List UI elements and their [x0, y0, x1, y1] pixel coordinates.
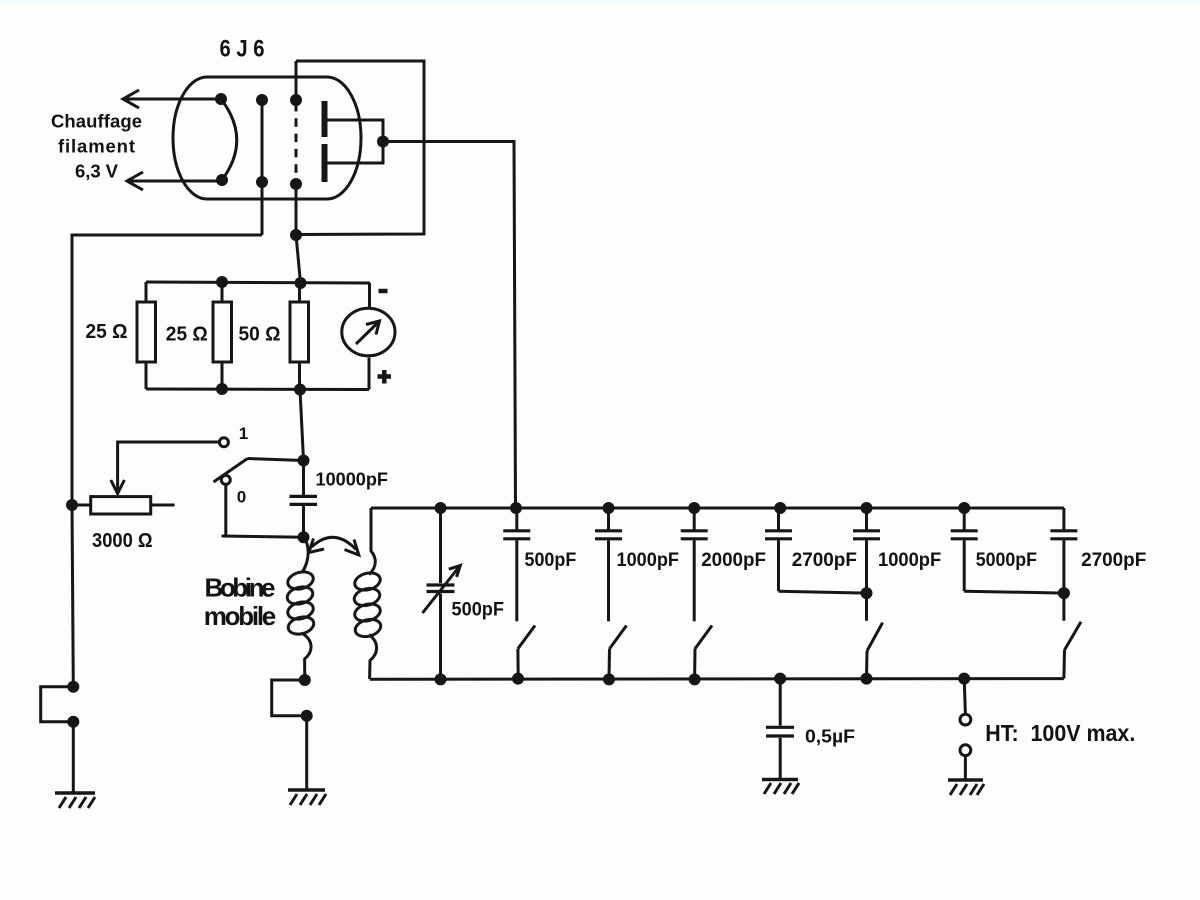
- label meter plus: [378, 370, 392, 384]
- svg-text:Bobine: Bobine: [205, 573, 276, 603]
- wire main vertical to switch junction: [300, 390, 304, 461]
- meter M1 needle arrow: [356, 321, 380, 344]
- svg-text:500pF: 500pF: [452, 600, 505, 621]
- ground bypass: [762, 780, 799, 795]
- svg-text:2000pF: 2000pF: [701, 550, 766, 571]
- wire tank top rail: [371, 507, 1064, 510]
- node bottom rail dot A: [216, 383, 228, 395]
- wire cathode to left rail: [72, 235, 262, 505]
- svg-text:2700pF: 2700pF: [792, 550, 857, 571]
- node var cap top dot: [435, 502, 447, 514]
- label Chauffage filament 6,3 V: [51, 111, 142, 182]
- capacitor C7 1000pF: [853, 508, 880, 621]
- wire anode to tank: [383, 142, 516, 509]
- switch S5 blade: [867, 623, 883, 679]
- switch S4 blade: [695, 626, 712, 680]
- meter M1 circle: [342, 283, 395, 390]
- svg-text:10000pF: 10000pF: [316, 469, 389, 490]
- tube U1 anode plate bottom bar: [322, 144, 328, 182]
- wire switch junction to cap C1: [302, 461, 305, 496]
- potentiometer R4 3000 ohm body: [72, 497, 175, 514]
- tube U1 filament pin top dot: [215, 93, 227, 105]
- node link dot C8-C9: [1058, 587, 1070, 599]
- node jumper bottom dot left: [67, 716, 79, 728]
- capacitor C3 500pF: [503, 508, 530, 621]
- wire grid up to feedback rectangle: [295, 61, 298, 100]
- wire heater bottom with arrow: [127, 172, 222, 190]
- terminal HT lower circle: [960, 745, 971, 756]
- wire anode taps: [326, 120, 383, 163]
- node tank top dot C4: [603, 502, 615, 514]
- tube U1 envelope: [173, 77, 361, 199]
- node tank top dot C6: [774, 502, 786, 514]
- wire HT terminal lower to ground: [964, 755, 967, 780]
- capacitor C5 2000pF: [681, 508, 708, 621]
- switch S2 blade: [518, 626, 535, 679]
- svg-text:HT: 100V max.: HT: 100V max.: [985, 720, 1135, 746]
- ground left: [55, 793, 95, 808]
- capacitor C2 variable 500pF: [423, 508, 461, 679]
- coupling arrow between coils: [309, 537, 359, 555]
- capacitor C6 2700pF: [765, 508, 867, 593]
- node S2 bottom dot: [512, 673, 524, 685]
- capacitor C1 10000pF: [290, 496, 318, 504]
- wire contact 1 to potentiometer arrow: [111, 442, 220, 494]
- node tank top dot C7: [861, 502, 873, 514]
- tube U1 grid pin dashed line: [295, 103, 298, 182]
- node tank top dot C3: [510, 502, 522, 514]
- switch S3 blade: [609, 626, 627, 680]
- svg-text:filament: filament: [58, 136, 135, 157]
- svg-text:0,5µF: 0,5µF: [805, 726, 855, 747]
- wire jumper link middle: [272, 680, 307, 716]
- node jumper bottom dot middle: [301, 710, 313, 722]
- inductor L1 bobine mobile: [285, 537, 315, 680]
- inductor L2 tank coil: [352, 508, 382, 679]
- node jumper top dot left: [67, 681, 79, 693]
- node anode junction dot: [377, 136, 389, 148]
- node tank top dot C8: [958, 502, 970, 514]
- node S5 bottom dot: [861, 673, 873, 685]
- wire jumper link left: [41, 687, 74, 722]
- node bottom rail dot bypass: [774, 673, 786, 685]
- wire grid pin down to junction: [295, 184, 298, 235]
- node coil top dot: [298, 531, 310, 543]
- node tank top dot C5: [688, 502, 700, 514]
- tube U1 filament pin bottom dot: [216, 174, 228, 186]
- svg-text:1000pF: 1000pF: [878, 550, 941, 571]
- svg-text:6 J 6: 6 J 6: [220, 36, 265, 63]
- ground HT: [948, 780, 984, 795]
- node bottom rail dot B: [294, 384, 306, 396]
- wire to ground middle: [305, 716, 308, 790]
- resistor R2 25 ohm: [213, 282, 232, 389]
- node var cap bottom dot: [435, 673, 447, 685]
- tube U1 grid pin top dot: [290, 94, 302, 106]
- node 3000 ohm tap dot: [66, 499, 78, 511]
- svg-text:500pF: 500pF: [525, 550, 577, 571]
- tube U1 filament arc: [221, 99, 237, 180]
- resistor R1 25 ohm: [137, 282, 156, 389]
- ground middle: [288, 790, 326, 805]
- switch S1 contact 1 circle: [219, 438, 228, 447]
- svg-text:1: 1: [239, 424, 248, 443]
- resistor R3 50 ohm: [290, 283, 309, 390]
- svg-text:50 Ω: 50 Ω: [239, 324, 281, 346]
- wire feedback rectangle: [296, 61, 424, 235]
- node grid junction dot: [290, 229, 302, 241]
- svg-text:2700pF: 2700pF: [1081, 550, 1146, 571]
- switch S1 contact 0 circle: [221, 475, 230, 484]
- wire tank bottom rail: [370, 677, 1064, 681]
- wire heater top with arrow: [123, 90, 221, 108]
- node S4 bottom dot: [689, 673, 701, 685]
- wire to ground left: [72, 722, 75, 793]
- tube U1 cathode pin line: [261, 100, 264, 235]
- label meter minus: [379, 289, 388, 294]
- node switch junction dot: [298, 455, 310, 467]
- capacitor C4 1000pF: [595, 508, 622, 621]
- node top rail dot A: [216, 276, 228, 288]
- node S3 bottom dot: [603, 673, 615, 685]
- wire switch blade horizontal: [248, 459, 304, 461]
- wire contact 0 down and right: [222, 483, 304, 537]
- wire cap C1 to coil node: [302, 506, 305, 537]
- wire HT terminal upper: [964, 679, 965, 715]
- node coil bottom dot: [299, 674, 311, 686]
- capacitor C8 5000pF: [951, 508, 1064, 593]
- tube U1 grid pin bottom dot: [290, 178, 302, 190]
- node link dot C6-C7: [861, 587, 873, 599]
- node top rail dot B: [295, 277, 307, 289]
- wire grid junction to resistor rail: [296, 235, 301, 283]
- svg-text:mobile: mobile: [204, 601, 277, 631]
- svg-text:5000pF: 5000pF: [976, 550, 1037, 571]
- svg-text:0: 0: [237, 488, 246, 507]
- svg-text:25 Ω: 25 Ω: [166, 324, 208, 346]
- wire left rail down: [72, 505, 73, 687]
- switch S1 blade: [214, 459, 248, 483]
- label L1 Bobine mobile: [204, 573, 277, 632]
- tube U1 anode plate top bar: [322, 101, 328, 137]
- svg-text:Chauffage: Chauffage: [51, 111, 142, 132]
- wire resistor top rail: [146, 282, 370, 283]
- node HT dot: [958, 673, 970, 685]
- tube U1 cathode pin bottom dot: [256, 176, 268, 188]
- svg-text:6,3 V: 6,3 V: [75, 161, 119, 182]
- svg-text:3000 Ω: 3000 Ω: [92, 530, 153, 552]
- switch S6 blade: [1064, 622, 1081, 679]
- wire resistor bottom rail: [146, 388, 369, 392]
- capacitor C10 0,5uF: [766, 679, 794, 780]
- terminal HT upper circle: [960, 714, 971, 725]
- tube U1 cathode pin top dot: [256, 94, 268, 106]
- svg-text:25 Ω: 25 Ω: [86, 321, 128, 343]
- capacitor C9 2700pF: [1050, 508, 1077, 621]
- svg-text:1000pF: 1000pF: [617, 550, 680, 571]
